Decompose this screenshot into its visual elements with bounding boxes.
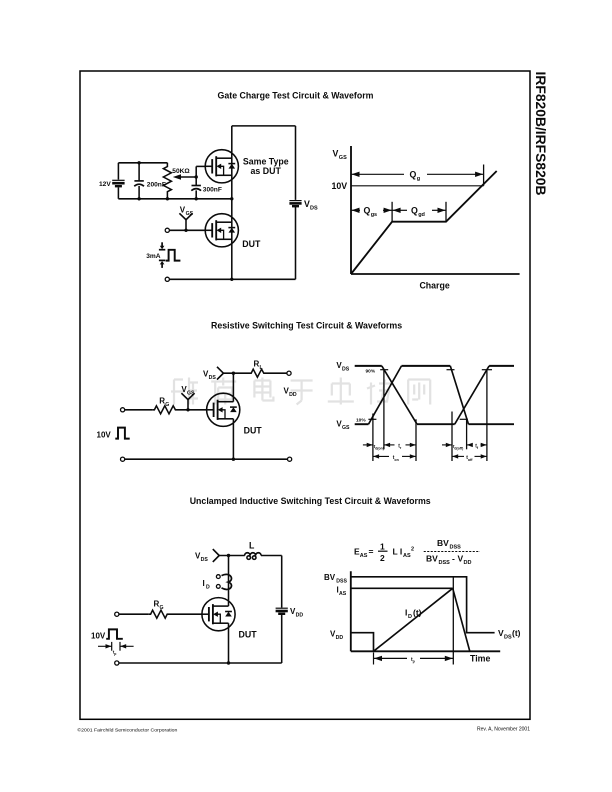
VGS low segment left — [355, 423, 369, 425]
node: drain top junction — [227, 554, 230, 557]
svg-text:DS: DS — [504, 635, 512, 641]
svg-text:D: D — [408, 614, 412, 620]
wire input to RG — [119, 613, 149, 615]
svg-text:Rev. A, November 2001: Rev. A, November 2001 — [477, 727, 530, 733]
node: DUT source to bottom edge junction — [230, 278, 233, 281]
tf arrow — [467, 443, 487, 447]
node: drain top junction — [232, 372, 235, 375]
svg-text:gd: gd — [418, 212, 425, 218]
svg-text:Unclamped Inductive Switching: Unclamped Inductive Switching Test Circu… — [190, 496, 431, 506]
VDS high segment left — [355, 365, 382, 367]
terminal: gate input — [165, 228, 169, 232]
svg-text:(t): (t) — [512, 628, 521, 638]
svg-text:GS: GS — [339, 155, 347, 161]
transistor U4 DUT — [202, 598, 235, 631]
wire top node to inductor — [219, 555, 245, 557]
svg-text:DD: DD — [289, 392, 297, 398]
10% tick left — [368, 418, 376, 420]
svg-text:2: 2 — [411, 547, 414, 553]
watermark — [171, 378, 430, 405]
node: bottom rail to drain bus junction — [230, 197, 233, 200]
svg-text:DD: DD — [464, 560, 472, 566]
dimension tick t2 — [383, 370, 385, 450]
svg-text:AS: AS — [360, 553, 368, 559]
wire drain node to RL — [223, 372, 249, 374]
battery B3 VDD — [276, 608, 288, 614]
svg-text:L: L — [249, 541, 255, 551]
pulse width ticks — [112, 642, 120, 651]
svg-text:GS: GS — [342, 425, 350, 431]
inductor L — [245, 553, 262, 560]
svg-text:G: G — [160, 605, 164, 611]
svg-text:D: D — [206, 584, 210, 590]
wire bottom rail — [125, 458, 288, 460]
svg-text:Q: Q — [411, 206, 418, 216]
capacitor C2 300nF — [191, 186, 201, 199]
svg-text:BV: BV — [426, 554, 438, 564]
svg-text:DS: DS — [209, 375, 217, 381]
wire source drop — [232, 419, 234, 459]
wire input to RG — [125, 409, 153, 411]
ID ramp — [374, 588, 453, 651]
axis BVDSS graph — [351, 571, 500, 651]
wire source drop — [228, 623, 230, 663]
dimension tick t1 — [372, 414, 374, 462]
terminal: bottom left — [121, 457, 125, 461]
tp arrow — [374, 656, 454, 661]
svg-text:GS: GS — [186, 211, 194, 217]
svg-text:R: R — [159, 397, 165, 406]
probe VGS — [181, 393, 194, 410]
wire drain bus (left edge of loop) — [231, 126, 233, 279]
page border frame drawn as main box — [80, 71, 530, 719]
svg-text:V: V — [333, 149, 339, 159]
wire loop right edge — [295, 126, 297, 200]
svg-text:BV: BV — [324, 573, 336, 582]
BVDSS level line / VDS(t) top — [351, 577, 495, 633]
terminal: bottom right — [288, 457, 292, 461]
battery B1 12V — [112, 163, 124, 199]
dimension tick t3 — [415, 419, 417, 461]
svg-text:DS: DS — [342, 366, 350, 372]
tp ticks — [373, 653, 375, 665]
tr arrow — [384, 443, 416, 447]
svg-text:300nF: 300nF — [203, 186, 222, 193]
svg-text:DS: DS — [201, 557, 209, 563]
VDS rise line — [452, 577, 454, 665]
capacitor C1 200nF — [134, 163, 144, 199]
wire right edge lower — [281, 615, 283, 663]
svg-text:gs: gs — [371, 212, 377, 218]
svg-text:I: I — [203, 579, 205, 588]
90% tick left — [380, 369, 388, 371]
pulse glyph for I1 — [166, 250, 181, 261]
dimension tick t6 — [486, 370, 488, 461]
transistor U2 DUT — [205, 214, 238, 247]
low segment middle — [417, 423, 455, 425]
wire gate of U1 — [196, 165, 206, 167]
svg-text:AS: AS — [339, 591, 347, 597]
low segment right — [469, 423, 515, 425]
svg-text:as DUT: as DUT — [251, 166, 282, 176]
probe VDS — [213, 549, 219, 562]
VDD step — [351, 633, 374, 652]
svg-text:IRF820B/IRFS820B: IRF820B/IRFS820B — [533, 72, 549, 196]
VGS rising edge — [369, 366, 402, 424]
battery B2 VDS — [289, 201, 301, 207]
pulse glyph input — [115, 428, 129, 439]
ID fall — [453, 588, 470, 651]
VDS falling edge — [382, 366, 417, 424]
wire loop bottom edge — [232, 278, 296, 280]
dimension tick t5 — [466, 419, 468, 449]
node: VGS probe junction — [186, 408, 189, 411]
wire inductor to right edge — [261, 555, 282, 557]
IAS level line — [351, 587, 453, 589]
svg-text:on: on — [394, 458, 398, 462]
Qgs dimension arrow — [351, 202, 392, 222]
svg-text:DUT: DUT — [244, 426, 263, 436]
svg-text:Q: Q — [410, 170, 417, 180]
ton arrow — [373, 454, 416, 458]
pulse glyph input — [106, 629, 123, 638]
resistor RL — [250, 369, 266, 377]
current probe ID — [216, 574, 231, 589]
svg-text:off: off — [468, 458, 473, 462]
svg-text:2: 2 — [380, 553, 385, 563]
svg-text:=: = — [369, 547, 374, 557]
node: wiper junction — [195, 175, 198, 178]
wire bottom rail — [119, 662, 282, 664]
svg-text:r: r — [400, 446, 402, 450]
axis VGS vs Charge — [351, 146, 520, 274]
transistor U3 DUT — [207, 393, 240, 426]
svg-text:50KΩ: 50KΩ — [172, 168, 190, 175]
svg-text:DUT: DUT — [242, 239, 261, 249]
node: VGS probe junction — [184, 229, 187, 232]
node: C2 bottom junction — [195, 197, 198, 200]
svg-text:(t): (t) — [413, 608, 422, 618]
wire gate input to U2 — [169, 229, 206, 231]
svg-text:DD: DD — [336, 635, 344, 641]
node: source to rail junction — [227, 661, 230, 664]
svg-text:1: 1 — [380, 542, 385, 552]
wire top rail — [118, 162, 167, 164]
wire bottom rail — [118, 198, 231, 200]
wire wiper to gate riser — [195, 166, 197, 185]
svg-text:d(on): d(on) — [375, 446, 384, 450]
svg-text:DSS: DSS — [439, 560, 451, 566]
svg-text:Time: Time — [470, 654, 490, 664]
svg-text:Resistive Switching Test Circu: Resistive Switching Test Circuit & Wavef… — [211, 321, 402, 331]
svg-text:10V: 10V — [332, 181, 348, 191]
svg-text:Charge: Charge — [419, 281, 449, 291]
svg-text:10V: 10V — [91, 632, 106, 641]
node: pot bottom junction — [166, 197, 169, 200]
svg-text:GS: GS — [187, 391, 195, 397]
svg-text:g: g — [417, 176, 420, 182]
svg-text:10%: 10% — [356, 418, 366, 424]
svg-text:DS: DS — [310, 206, 318, 212]
td(on) arrow — [363, 443, 373, 447]
svg-text:f: f — [477, 446, 479, 450]
terminal: gate drive input — [121, 408, 125, 412]
svg-text:G: G — [165, 402, 169, 408]
terminal: source return — [165, 277, 169, 281]
svg-text:Q: Q — [364, 206, 371, 216]
svg-text:DSS: DSS — [336, 579, 347, 585]
node: C1 bottom junction — [137, 197, 140, 200]
potentiometer R1 50KOhm — [163, 163, 196, 199]
transistor U1 (Same Type as DUT) — [205, 150, 238, 183]
VGS falling edge — [450, 366, 468, 424]
svg-text:Gate Charge Test Circuit & Wav: Gate Charge Test Circuit & Waveform — [218, 91, 374, 101]
high segment right — [489, 365, 514, 367]
wire drain riser — [228, 556, 230, 607]
part number side label — [533, 72, 549, 196]
VDS rising edge — [455, 366, 489, 424]
terminal: bottom left — [115, 661, 119, 665]
svg-text:3mA: 3mA — [146, 253, 161, 260]
probe VGS — [179, 213, 192, 230]
svg-text:10V: 10V — [97, 431, 112, 440]
90% tick right b — [482, 369, 492, 371]
svg-text:AS: AS — [403, 553, 411, 559]
probe VDS — [217, 367, 223, 380]
svg-text:L I: L I — [393, 547, 403, 557]
wire RL to VDD terminal — [266, 372, 287, 374]
Qg dimension arrow — [351, 165, 484, 186]
wire loop top edge — [232, 125, 296, 127]
node: source to rail junction — [232, 458, 235, 461]
wire right edge upper — [281, 556, 283, 608]
svg-text:DD: DD — [296, 612, 304, 618]
pulse width arrows — [98, 644, 134, 648]
formula EAS — [354, 538, 480, 566]
current source I1 3mA — [159, 242, 165, 268]
svg-text:d(off): d(off) — [454, 446, 463, 450]
resistor RG — [152, 406, 177, 414]
svg-text:12V: 12V — [99, 181, 111, 188]
svg-text:©2001 Fairchild Semiconductor: ©2001 Fairchild Semiconductor Corporatio… — [77, 727, 177, 734]
td(off) arrow — [442, 443, 452, 447]
10V level line — [351, 185, 484, 187]
wire drain riser — [232, 373, 234, 402]
terminal: VDD — [287, 371, 291, 375]
svg-text:DSS: DSS — [450, 545, 462, 551]
resistor RG — [149, 610, 168, 618]
10% tick right — [460, 418, 468, 420]
terminal: gate drive input — [115, 612, 119, 616]
svg-text:90%: 90% — [366, 369, 376, 375]
toff arrow — [452, 454, 487, 458]
high segment middle — [402, 365, 451, 367]
node: C1 top junction — [137, 161, 140, 164]
wire RG to gate — [168, 613, 203, 615]
wire source return to loop — [169, 278, 231, 280]
svg-text:p: p — [413, 660, 416, 664]
svg-text:p: p — [114, 652, 116, 656]
wire RG to gate — [178, 409, 208, 411]
Qgd dimension arrow — [392, 202, 446, 222]
svg-text:DUT: DUT — [239, 629, 258, 639]
svg-text:-: - — [452, 554, 455, 564]
dimension tick t4 — [451, 412, 453, 462]
gate charge curve — [351, 171, 497, 274]
90% tick right a — [447, 369, 455, 371]
svg-text:BV: BV — [437, 538, 449, 548]
